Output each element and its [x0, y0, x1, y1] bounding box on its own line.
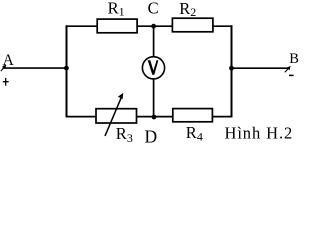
- resistor R3 (variable): [96, 109, 137, 123]
- resistor R4: [173, 109, 213, 122]
- node A junction dot: [64, 66, 69, 71]
- node D junction dot: [152, 115, 157, 120]
- wire right rail: [231, 25, 233, 117]
- wire bottom rail: [66, 116, 233, 118]
- wire left rail: [66, 25, 68, 117]
- rheostat arrow on R3: [105, 93, 123, 136]
- wire voltmeter branch: [153, 26, 155, 116]
- wire B lead: [232, 67, 290, 69]
- svg-text:Hình H.2: Hình H.2: [225, 123, 294, 142]
- node B junction dot: [229, 66, 234, 71]
- svg-text:C: C: [148, 0, 159, 18]
- svg-text:B: B: [289, 51, 299, 67]
- label minus: [289, 74, 294, 76]
- resistor R2: [172, 18, 213, 32]
- svg-text:A: A: [3, 52, 15, 69]
- arrow at B terminal: [285, 66, 291, 72]
- arrow at A terminal: [1, 65, 7, 72]
- node C junction dot: [151, 24, 156, 29]
- voltmeter U1: [142, 57, 164, 79]
- wire top rail: [66, 25, 233, 27]
- label plus: [3, 78, 9, 86]
- wire A lead: [3, 67, 67, 69]
- svg-text:D: D: [145, 126, 158, 145]
- resistor R1: [97, 19, 137, 33]
